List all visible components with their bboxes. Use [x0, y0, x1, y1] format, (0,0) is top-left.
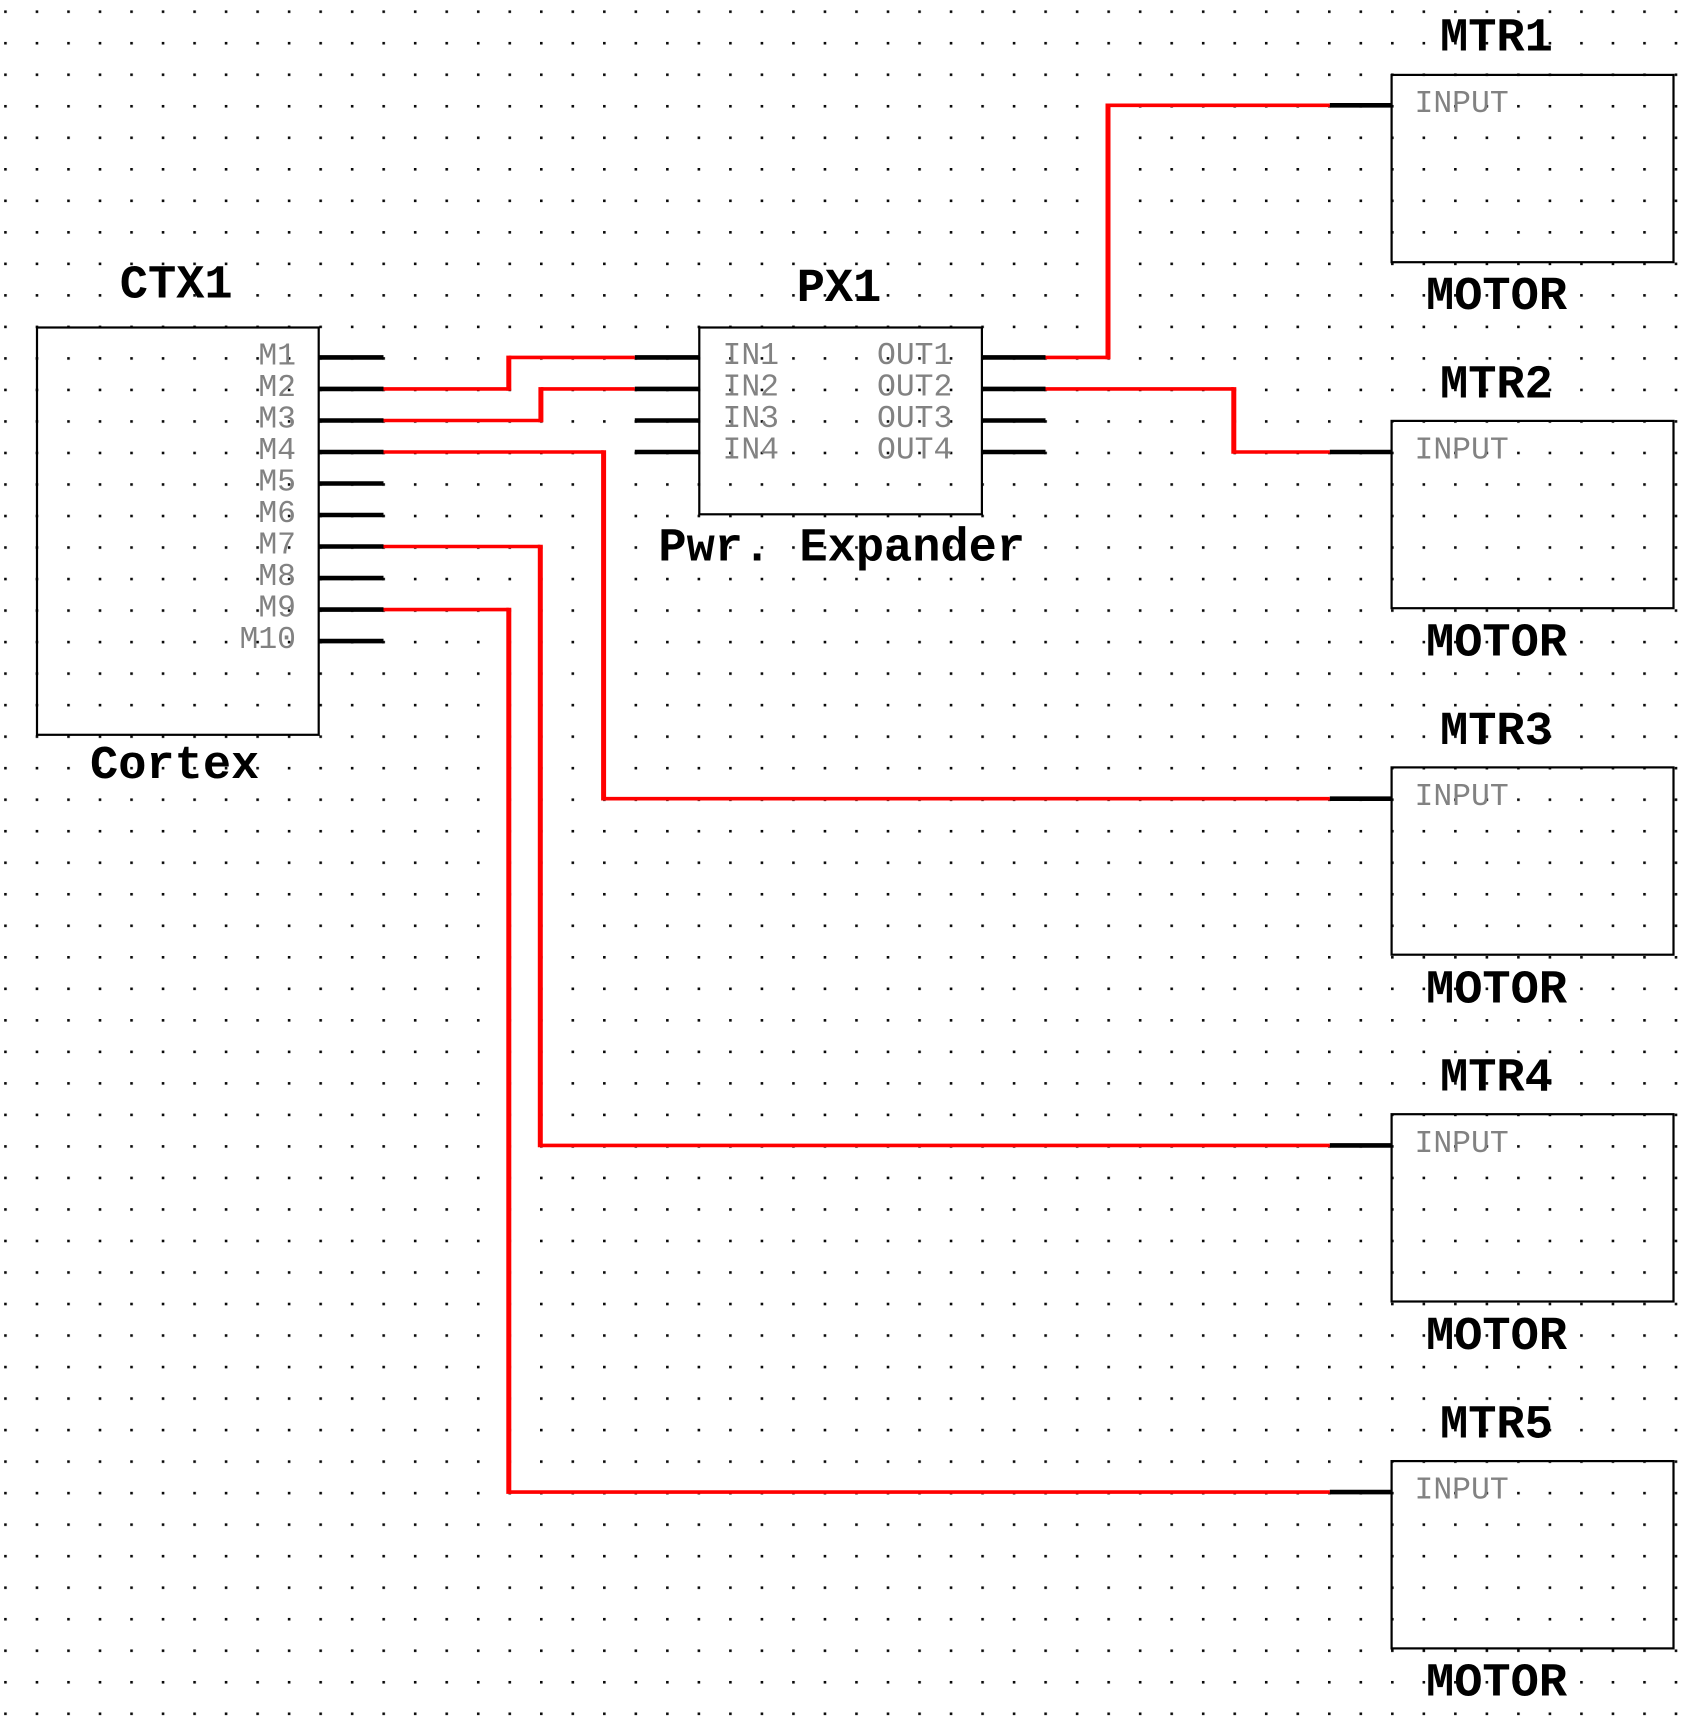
- pin M6 of CTX1: [258, 497, 383, 532]
- wire M3 to IN2 (red): [384, 387, 635, 422]
- pin M5 of CTX1: [258, 466, 383, 501]
- wire M2 to IN1 (red): [384, 356, 635, 391]
- svg-text:M9: M9: [258, 592, 296, 627]
- pin OUT2 of PX1: [877, 370, 1046, 405]
- svg-text:IN1: IN1: [723, 339, 780, 374]
- pin M3 of CTX1: [258, 403, 383, 438]
- svg-text:M3: M3: [258, 403, 296, 438]
- svg-text:INPUT: INPUT: [1415, 434, 1509, 469]
- component MTR1 (motor): [1392, 75, 1674, 262]
- component MTR3 (motor): [1392, 767, 1674, 954]
- wire M9 to MTR5 INPUT (red): [384, 608, 1330, 1494]
- svg-text:MOTOR: MOTOR: [1426, 1658, 1568, 1711]
- wire OUT1 to MTR1 INPUT (red): [1046, 104, 1330, 360]
- svg-text:MTR2: MTR2: [1440, 359, 1553, 412]
- svg-text:OUT4: OUT4: [877, 434, 952, 469]
- pin INPUT of MTR3: [1330, 780, 1509, 815]
- svg-text:MTR3: MTR3: [1440, 706, 1553, 759]
- svg-text:M5: M5: [258, 466, 296, 501]
- pin INPUT of MTR1: [1330, 87, 1509, 122]
- svg-text:INPUT: INPUT: [1415, 780, 1509, 815]
- component MTR5 (motor): [1392, 1461, 1674, 1648]
- svg-text:M2: M2: [258, 371, 296, 406]
- svg-text:Pwr. Expander: Pwr. Expander: [658, 523, 1025, 576]
- svg-text:M6: M6: [258, 497, 296, 532]
- svg-text:OUT2: OUT2: [877, 370, 952, 405]
- pin M2 of CTX1: [258, 371, 383, 406]
- svg-text:MTR4: MTR4: [1440, 1053, 1553, 1106]
- svg-text:OUT1: OUT1: [877, 339, 952, 374]
- wire M4 to MTR3 INPUT (red): [384, 450, 1330, 800]
- component MTR4 (motor): [1392, 1114, 1674, 1301]
- pin INPUT of MTR4: [1330, 1127, 1509, 1162]
- pin OUT4 of PX1: [877, 434, 1046, 469]
- svg-text:Cortex: Cortex: [90, 740, 259, 793]
- pin M10 of CTX1: [239, 623, 383, 658]
- pin M7 of CTX1: [258, 529, 383, 564]
- component MTR2 (motor): [1392, 421, 1674, 608]
- svg-text:MOTOR: MOTOR: [1426, 618, 1568, 671]
- svg-text:IN2: IN2: [723, 370, 780, 405]
- pin M1 of CTX1: [258, 339, 383, 374]
- wire OUT2 to MTR2 INPUT (red): [1046, 387, 1330, 454]
- pin INPUT of MTR2: [1330, 434, 1509, 469]
- svg-text:M10: M10: [239, 623, 296, 658]
- svg-text:INPUT: INPUT: [1415, 1474, 1509, 1509]
- wire M7 to MTR4 INPUT (red): [384, 545, 1330, 1147]
- svg-text:CTX1: CTX1: [120, 260, 233, 313]
- pin M9 of CTX1: [258, 592, 383, 627]
- svg-text:OUT3: OUT3: [877, 402, 952, 437]
- svg-text:INPUT: INPUT: [1415, 87, 1509, 122]
- pin M4 of CTX1: [258, 434, 383, 469]
- pin OUT3 of PX1: [877, 402, 1046, 437]
- svg-text:M7: M7: [258, 529, 296, 564]
- svg-text:MOTOR: MOTOR: [1426, 271, 1568, 324]
- component CTX1 (Cortex microcontroller): [37, 328, 319, 735]
- pin IN1 of PX1: [635, 339, 779, 374]
- pin IN3 of PX1: [635, 402, 779, 437]
- svg-text:M8: M8: [258, 560, 296, 595]
- pin IN4 of PX1: [635, 434, 779, 469]
- pin INPUT of MTR5: [1330, 1474, 1509, 1509]
- svg-text:IN3: IN3: [723, 402, 780, 437]
- svg-text:MTR1: MTR1: [1440, 13, 1553, 66]
- svg-text:MOTOR: MOTOR: [1426, 1311, 1568, 1364]
- pin M8 of CTX1: [258, 560, 383, 595]
- svg-text:PX1: PX1: [797, 263, 882, 316]
- svg-text:M4: M4: [258, 434, 296, 469]
- svg-text:MTR5: MTR5: [1440, 1399, 1553, 1452]
- pin OUT1 of PX1: [877, 339, 1046, 374]
- component PX1 (Power Expander): [699, 328, 982, 515]
- svg-text:MOTOR: MOTOR: [1426, 964, 1568, 1017]
- svg-text:IN4: IN4: [723, 434, 780, 469]
- svg-text:INPUT: INPUT: [1415, 1127, 1509, 1162]
- pin IN2 of PX1: [635, 370, 779, 405]
- svg-text:M1: M1: [258, 339, 296, 374]
